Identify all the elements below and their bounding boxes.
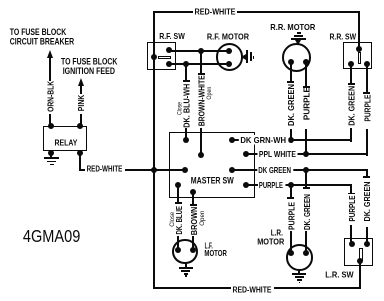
svg-text:PINK: PINK [76, 94, 86, 111]
L.R. MOTOR circle [286, 244, 313, 271]
tick L.R. motor PURPLE [287, 197, 294, 199]
wire DK GREEN down-column to L.R. motor (upper) [305, 170, 307, 189]
L.F. motor terminal dot left [175, 247, 181, 253]
wire far-right DK GREEN corner vertical (to L.R. SW) [366, 169, 368, 178]
master terminal dot DK BLUE (close) [175, 182, 181, 188]
master terminal dot PPL WHITE [243, 151, 249, 157]
master terminal dot DK GREEN [229, 167, 235, 173]
L.R. SW box [344, 238, 373, 266]
svg-text:PURPLE: PURPLE [362, 94, 372, 121]
wire DK GREEN horizontal [232, 169, 368, 171]
svg-text:TO FUSE BLOCK: TO FUSE BLOCK [10, 27, 67, 37]
svg-text:RED-WHITE: RED-WHITE [233, 285, 273, 294]
svg-text:RED-WHITE: RED-WHITE [195, 7, 237, 16]
R.R. SW common dot [356, 46, 362, 52]
tick R.R. SW DK GREEN [348, 83, 355, 85]
L.R. ground bar 2 [295, 276, 304, 278]
tick DK BLUE [175, 202, 182, 204]
L.R. ground bar 3 [297, 279, 301, 281]
wire R.R. SW PURPLE upper segment [366, 64, 368, 92]
wire R.R. motor PURPLE lower segment [305, 129, 307, 154]
wire far-left PURPLE corner vertical (to L.R. SW) [350, 184, 352, 194]
wire R.R. motor DK GREEN upper segment [290, 62, 292, 83]
wire R.R. SW common from top line [358, 11, 360, 49]
svg-text:CIRCUIT BREAKER: CIRCUIT BREAKER [10, 36, 75, 46]
wire ORN-BLK upper segment [49, 58, 51, 81]
wire R.R. motor DK GREEN lower segment [290, 129, 292, 140]
tick DK BLU-WH [183, 80, 190, 82]
wire far-right DK GREEN lower segment [366, 227, 368, 245]
L.F. motor terminal dot right [190, 247, 196, 253]
svg-text:BROWN-WHITE: BROWN-WHITE [197, 75, 207, 126]
ground bar 3 [50, 164, 54, 166]
L.F. ground bar 2 [181, 270, 190, 272]
R.R. motor terminal dot right [303, 59, 309, 65]
wire PURPLE down-column lower [290, 231, 292, 253]
junction dot DK BLU-WH tap [183, 61, 189, 67]
L.F. ground bar 3 [184, 273, 188, 275]
svg-text:R.R. SW: R.R. SW [330, 32, 357, 41]
svg-text:ORN-BLK: ORN-BLK [45, 80, 55, 112]
wire RED-WHITE feed (horizontal) [79, 169, 186, 171]
wire DK GREEN down-column lower [305, 231, 307, 253]
wire DK BLUE lower segment [177, 236, 179, 250]
svg-text:PURPLE: PURPLE [347, 195, 357, 221]
R.R. motor brush arrow (down) [295, 40, 301, 45]
R.F. motor terminal dot lower [226, 61, 232, 67]
wire R.R. SW DK GREEN lower segment [350, 128, 352, 142]
svg-text:DK. GREEN: DK. GREEN [347, 86, 357, 126]
R.R. SW lever [358, 52, 362, 64]
svg-text:Open: Open [206, 86, 213, 99]
junction dot PURPLE column [288, 182, 294, 188]
svg-text:R.R. MOTOR: R.R. MOTOR [270, 23, 315, 32]
tick L.R. motor DK GREEN [303, 187, 310, 189]
R.F. MOTOR circle [216, 43, 244, 71]
tick R.R. motor DK GREEN [287, 81, 294, 83]
wire far-left PURPLE lower segment [350, 225, 352, 245]
R.F. SW terminal dot upper [166, 47, 172, 53]
wire L.R. SW common down to bottom line [359, 261, 361, 289]
junction dot PPL WHITE / motor purple [303, 151, 309, 157]
ground below L.R. motor: stub [298, 271, 300, 274]
svg-text:L.R. SW: L.R. SW [325, 271, 353, 280]
wire ORN-BLK lower segment [49, 114, 51, 127]
main bus vertical (left side RED-WHITE) [153, 11, 155, 290]
R.R. SW terminal dot left [348, 61, 354, 67]
wire PURPLE down-column to L.R. motor (upper) [290, 185, 292, 199]
relay box [43, 126, 87, 151]
arrow to fuse block circuit breaker [47, 50, 53, 58]
junction dot bus / feed [151, 167, 157, 173]
svg-text:MASTER SW: MASTER SW [191, 176, 234, 186]
wire PINK lower segment [80, 114, 82, 127]
svg-text:MOTOR: MOTOR [204, 249, 227, 258]
ground bar 2 [47, 161, 56, 163]
relay terminal dot bottom-left [48, 150, 54, 156]
relay terminal dot top-left [48, 123, 54, 129]
master terminal dot BROWN (open) [190, 189, 196, 195]
wire DK BLU-WH lower segment [185, 128, 187, 140]
svg-text:RELAY: RELAY [55, 137, 78, 147]
L.R. SW terminal dot right [364, 241, 370, 247]
wire BROWN-WHITE upper segment [200, 51, 202, 75]
wire R.R. motor PURPLE upper segment [305, 62, 307, 88]
tick R.R. SW PURPLE [363, 92, 370, 94]
relay terminal dot top-right [77, 123, 83, 129]
wire R.F. SW upper to R.F. motor [169, 50, 229, 52]
wire BROWN lower segment [192, 236, 194, 250]
wire DK GRN-WH horizontal [232, 139, 353, 141]
wire RED-WHITE top horizontal [153, 11, 359, 13]
svg-text:Open: Open [199, 210, 206, 225]
ground below L.F. motor: stub [185, 263, 187, 268]
svg-text:RED-WHITE: RED-WHITE [87, 164, 123, 173]
arrow to fuse block ignition feed [78, 78, 84, 86]
svg-text:R.F. SW: R.F. SW [159, 32, 185, 41]
wire RED-WHITE bottom horizontal [153, 287, 361, 289]
R.F. motor brush arrow [241, 54, 246, 60]
svg-text:IGNITION FEED: IGNITION FEED [63, 66, 115, 76]
svg-text:DK GREEN: DK GREEN [258, 166, 291, 175]
svg-text:DK. BLU-WH: DK. BLU-WH [182, 84, 192, 128]
tick BROWN [190, 204, 197, 206]
master terminal dot PURPLE [243, 182, 249, 188]
R.R. MOTOR circle [282, 43, 311, 72]
svg-text:DK GRN-WH: DK GRN-WH [240, 136, 286, 145]
ground bar 1 [44, 157, 58, 159]
tick L.R. SW DK GREEN [363, 176, 370, 178]
R.F. motor brush nub [253, 56, 255, 59]
L.R. SW common dot [357, 258, 363, 264]
R.F. SW lever [158, 56, 171, 60]
MASTER SW box [169, 132, 255, 198]
R.R. motor brush bar narrow [294, 35, 302, 37]
junction dot DK GREEN column [303, 167, 309, 173]
wire PPL WHITE horizontal [246, 153, 368, 155]
svg-text:MOTOR: MOTOR [257, 237, 284, 246]
wire master DK BLUE bottom segment [177, 185, 179, 204]
L.F. MOTOR circle [172, 239, 198, 265]
L.R. ground bar 4 [299, 282, 301, 284]
master terminal dot DK BLU-WH [183, 137, 189, 143]
L.R. SW lever [359, 248, 363, 261]
R.F. motor terminal dot upper [226, 48, 232, 54]
junction dot BROWN-WHITE tap [198, 48, 204, 54]
L.F. ground bar 1 [179, 267, 193, 269]
R.F. motor brush bar short [250, 52, 252, 60]
L.R. SW terminal dot left [349, 241, 355, 247]
svg-text:DK. BLUE: DK. BLUE [174, 206, 184, 235]
R.F. SW common dot on bus [151, 54, 157, 60]
wire R.R. SW PURPLE lower segment [366, 129, 368, 156]
R.R. SW box [343, 42, 372, 69]
wire master BROWN bottom segment [192, 192, 194, 205]
svg-text:PURPLE: PURPLE [302, 87, 312, 120]
svg-text:PURPLE: PURPLE [287, 202, 297, 230]
ground below relay: stub [50, 153, 52, 158]
R.R. motor brush bar wide [291, 38, 306, 40]
wire R.F. SW lower to R.F. motor [169, 63, 229, 65]
L.F. ground bar 4 [185, 275, 187, 277]
tick BROWN-WHITE [198, 73, 205, 75]
wire PINK upper segment [80, 85, 82, 94]
svg-text:PPL WHITE: PPL WHITE [259, 150, 296, 159]
master terminal dot BROWN-WHITE [198, 152, 204, 158]
svg-text:BROWN: BROWN [189, 207, 199, 236]
relay terminal dot bottom-right [77, 150, 83, 156]
wire BROWN-WHITE lower segment [200, 128, 202, 156]
master terminal dot DK GRN-WH [229, 137, 235, 143]
svg-text:DK. GREEN: DK. GREEN [286, 84, 296, 126]
L.R. ground bar 1 [292, 273, 306, 275]
wire from relay to RED-WHITE feed (vertical) [79, 153, 81, 171]
svg-text:DK. GREEN: DK. GREEN [302, 194, 312, 230]
R.F. motor brush bar tall [246, 50, 248, 62]
wire PURPLE horizontal [246, 184, 352, 186]
R.F. SW box [147, 42, 175, 70]
svg-text:L.R.: L.R. [271, 228, 283, 237]
R.R. motor terminal dot left [288, 59, 294, 65]
svg-text:R.F. MOTOR: R.F. MOTOR [207, 33, 249, 42]
tick L.R. SW PURPLE [348, 193, 355, 195]
tick R.R. motor PURPLE [303, 86, 310, 88]
R.R. motor brush nub [297, 32, 301, 34]
R.R. SW terminal dot right [364, 61, 370, 67]
R.F. SW terminal dot lower [166, 61, 172, 67]
white backing for inline wire labels [85, 7, 298, 294]
L.R. motor terminal dot left [288, 250, 294, 256]
wire R.R. SW DK GREEN upper segment [350, 64, 352, 84]
wire DK BLU-WH upper segment [185, 64, 187, 81]
L.R. motor terminal dot right [303, 250, 309, 256]
junction dot DK GRN-WH / motor green [288, 137, 294, 143]
master terminal dot RED-WHITE feed [182, 167, 188, 173]
svg-text:PURPLE: PURPLE [259, 181, 283, 190]
svg-text:DK. GREEN: DK. GREEN [362, 182, 372, 222]
svg-text:4GMA09: 4GMA09 [23, 226, 80, 246]
